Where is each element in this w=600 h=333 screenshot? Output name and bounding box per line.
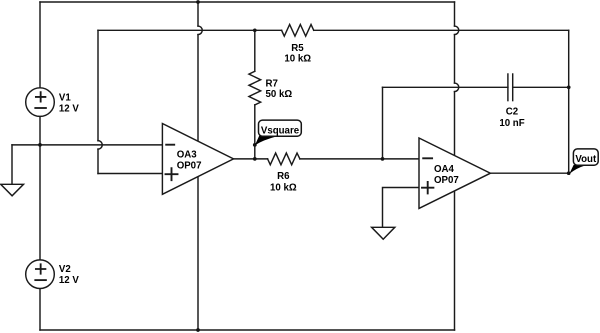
node: C2 right / output net bbox=[567, 85, 571, 89]
svg-text:10 kΩ: 10 kΩ bbox=[284, 53, 311, 64]
svg-text:Vsquare: Vsquare bbox=[261, 125, 300, 136]
svg-text:50 kΩ: 50 kΩ bbox=[266, 89, 293, 100]
node: inverting input of OA4 bbox=[381, 157, 385, 161]
capacitor C2 right plate bbox=[512, 74, 514, 101]
svg-text:V2: V2 bbox=[59, 264, 71, 275]
op-amp OA3 plus pin sign bbox=[166, 168, 178, 180]
wire OA3 output to R6 bbox=[234, 158, 268, 160]
wire ground drop left bbox=[11, 145, 13, 184]
op-amp U2 OA4 bbox=[419, 138, 490, 208]
voltage source V2 bbox=[26, 260, 55, 289]
wire bottom rail bbox=[40, 329, 455, 331]
wire C2 left lead bbox=[383, 86, 508, 88]
node: top rail / OA3 V+ bbox=[196, 0, 200, 4]
voltage source V1 bbox=[26, 88, 55, 117]
svg-text:C2: C2 bbox=[506, 107, 518, 118]
wire R7 bottom lead bbox=[254, 105, 256, 159]
wire V2 bottom lead bbox=[39, 288, 41, 330]
svg-text:12 V: 12 V bbox=[59, 104, 79, 115]
svg-text:10 kΩ: 10 kΩ bbox=[270, 182, 297, 193]
wire V1 bottom lead bbox=[39, 116, 41, 144]
wire hop at x=454.5 over C2 wire bbox=[455, 83, 459, 92]
wire C2 feedback vertical bbox=[382, 87, 384, 159]
node: Vsquare tail tip on wire bbox=[253, 143, 257, 147]
wire OA4 supply vertical (x=454.5) with hops bbox=[454, 2, 456, 26]
wire R6 to OA4 inverting input bbox=[300, 158, 419, 160]
wire noninverting net horizontal (y=30) bbox=[98, 29, 569, 31]
node: OA4 output / Vout bbox=[567, 171, 571, 175]
capacitor C2 left plate bbox=[507, 74, 509, 101]
svg-text:V1: V1 bbox=[59, 92, 71, 103]
ground (OA4 noninverting input) bbox=[372, 227, 395, 239]
wire right vertical to C2 and Vout bbox=[568, 30, 570, 173]
wire OA3 + input bbox=[98, 173, 162, 175]
wire R7 top lead bbox=[254, 30, 256, 71]
svg-text:OP07: OP07 bbox=[177, 161, 202, 172]
svg-text:R7: R7 bbox=[266, 79, 278, 90]
wire hop at x=98 over ground wire bbox=[98, 141, 102, 150]
svg-text:10 nF: 10 nF bbox=[499, 118, 524, 129]
wire top rail bbox=[40, 1, 455, 3]
svg-text:OA3: OA3 bbox=[177, 149, 198, 160]
op-amp U1 OA3 bbox=[162, 124, 233, 195]
wire V1 top lead bbox=[39, 2, 41, 88]
node: V1/V2/ground junction bbox=[38, 143, 42, 147]
node label Vout balloon bbox=[569, 149, 598, 174]
wire C2 right lead bbox=[513, 86, 569, 88]
resistor R7 50 kOhm (vertical) bbox=[249, 71, 261, 105]
svg-text:OP07: OP07 bbox=[434, 175, 459, 186]
resistor R6 10 kOhm (horizontal) bbox=[268, 153, 300, 165]
op-amp OA4 minus pin sign bbox=[423, 157, 432, 159]
wire hop at x=198 over y=30 wire bbox=[198, 26, 202, 35]
node label Vsquare balloon bbox=[255, 120, 301, 145]
wire OA3 supply vertical (x=198) with hop bbox=[197, 2, 199, 26]
wire V2 top lead bbox=[39, 145, 41, 260]
node: bottom rail / OA3 V- bbox=[196, 328, 200, 332]
svg-text:OA4: OA4 bbox=[434, 164, 455, 175]
op-amp OA3 minus pin sign bbox=[166, 144, 174, 146]
resistor R5 10 kOhm (horizontal) bbox=[282, 24, 314, 36]
wire mid ground net bbox=[12, 144, 162, 146]
wire OA3 noninverting vertical (x=98) with hop bbox=[97, 30, 99, 140]
wire hop at x=454.5 over y=30 wire bbox=[455, 26, 459, 35]
node: OA3 out / R7 / R6 bbox=[253, 157, 257, 161]
ground (left, supply midpoint) bbox=[1, 184, 24, 196]
wire OA4 + input to ground bbox=[383, 188, 420, 228]
node: R5 left / R7 top bbox=[253, 28, 257, 32]
svg-text:R6: R6 bbox=[277, 171, 290, 182]
svg-text:12 V: 12 V bbox=[59, 275, 79, 286]
wire OA4 output bbox=[490, 172, 568, 174]
svg-text:Vout: Vout bbox=[575, 154, 597, 165]
op-amp OA4 plus pin sign bbox=[422, 182, 433, 193]
